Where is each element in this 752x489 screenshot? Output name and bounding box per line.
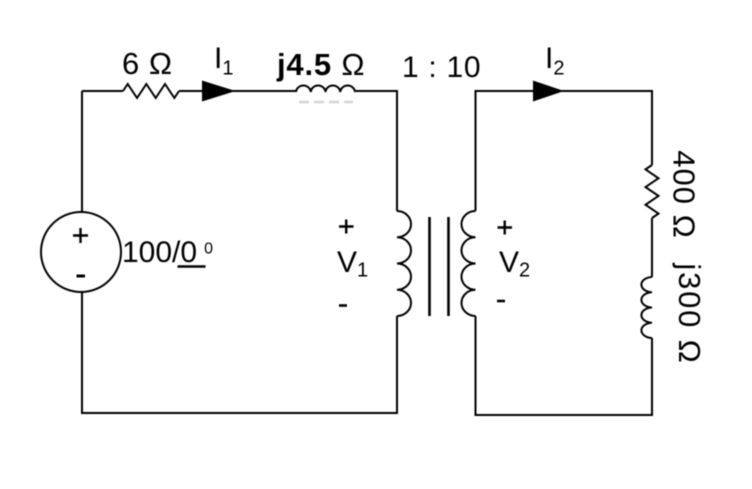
current arrow I2: [533, 81, 564, 102]
wire secondary right middle: [651, 218, 653, 277]
svg-text:400 Ω: 400 Ω: [667, 150, 702, 239]
svg-text:j300 Ω: j300 Ω: [672, 262, 707, 364]
voltage source minus sign: [77, 275, 86, 278]
underline of angle 0 in 100/0: [178, 265, 206, 268]
voltage source VS circle: [41, 212, 121, 292]
voltage source plus sign: [73, 228, 88, 243]
minus sign V2: [497, 300, 505, 303]
current arrow I1: [202, 81, 236, 102]
transformer primary coil: [397, 211, 411, 316]
wire primary right lower: [396, 316, 398, 414]
inductor j4.5ohm: [296, 85, 355, 92]
ghost artifact under inductor j4.5ohm: [299, 101, 353, 104]
svg-text:j4.5 Ω: j4.5 Ω: [276, 47, 365, 82]
wire secondary left lower: [475, 316, 477, 416]
wire primary left upper: [81, 91, 83, 212]
wire secondary left upper: [475, 90, 477, 211]
plus sign V2: [498, 221, 513, 235]
transformer secondary coil: [461, 211, 475, 316]
wire secondary right upper: [651, 90, 653, 165]
svg-text:6 Ω: 6 Ω: [122, 46, 173, 81]
svg-text:V2: V2: [499, 246, 530, 282]
minus sign V1: [339, 304, 347, 307]
transformer core line left: [428, 217, 431, 316]
resistor R 6ohm: [123, 84, 179, 98]
wire secondary bottom: [475, 414, 654, 416]
svg-text:I2: I2: [545, 42, 564, 80]
wire secondary top: [476, 90, 653, 92]
wire secondary right lower: [651, 338, 653, 416]
transformer core line right: [447, 217, 450, 316]
inductor j300ohm: [641, 277, 652, 338]
wire primary top right segment: [355, 90, 397, 92]
svg-text:V1: V1: [337, 246, 368, 282]
svg-text:100/00: 100/00: [122, 236, 213, 269]
wire primary left lower: [81, 292, 83, 414]
wire primary top-left segment: [82, 90, 123, 92]
wire primary bottom: [81, 412, 398, 414]
plus sign V1: [339, 220, 354, 234]
resistor R 400ohm: [646, 165, 659, 218]
wire primary top middle segment: [179, 90, 296, 92]
svg-text:I1: I1: [214, 42, 233, 80]
wire primary right upper: [396, 90, 398, 211]
svg-text:1 : 10: 1 : 10: [402, 51, 481, 84]
